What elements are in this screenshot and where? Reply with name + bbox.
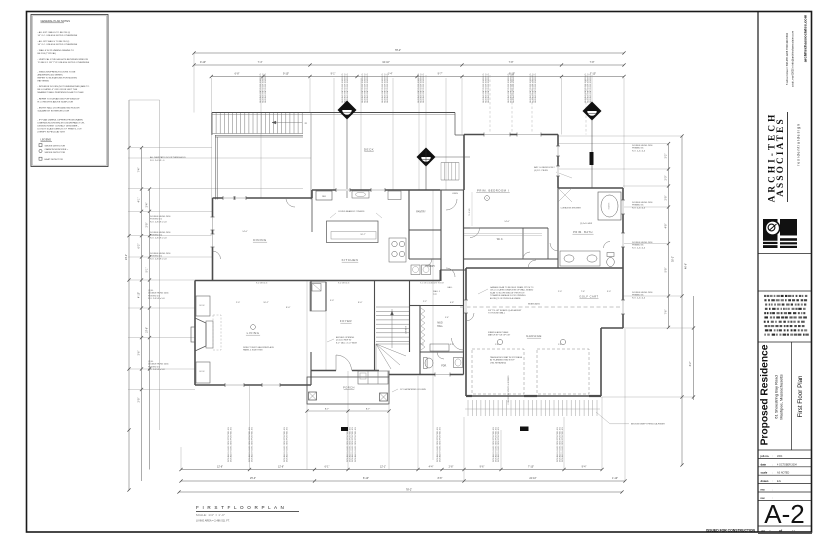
svg-text:- ALL EXT. WALLS TO BE 2X6 @: - ALL EXT. WALLS TO BE 2X6 @ <box>38 31 71 34</box>
svg-text:5/8" T1L WT BOARD @ ADJACENT: 5/8" T1L WT BOARD @ ADJACENT <box>488 309 522 312</box>
svg-text:34'-10": 34'-10" <box>382 61 390 64</box>
svg-text:SLIDING PATIO DR 6068 R.O.: SLIDING PATIO DR 6068 R.O. <box>532 73 535 103</box>
svg-text:W.I.C.: W.I.C. <box>497 238 504 241</box>
svg-text:SLIDING PATIO DR 6068 R.O.: SLIDING PATIO DR 6068 R.O. <box>507 73 510 103</box>
svg-text:GARAGE: GARAGE <box>526 334 542 338</box>
svg-text:GARAGE SLAB TO BE SELF DRAIN.: GARAGE SLAB TO BE SELF DRAIN. PITCH TO <box>490 286 534 289</box>
svg-text:REFER TO ELEVATIONS FOR MUNTIN: REFER TO ELEVATIONS FOR MUNTIN <box>38 76 78 79</box>
svg-text:SLIDING PATIO DR 6068 R.O.: SLIDING PATIO DR 6068 R.O. <box>589 73 592 103</box>
svg-text:DOUBLE HUNG 2456: DOUBLE HUNG 2456 <box>150 253 171 255</box>
svg-text:BE 2X6 (TYPICAL): BE 2X6 (TYPICAL) <box>38 52 57 55</box>
svg-text:HALL: HALL <box>447 286 453 289</box>
svg-text:(TBL RETAINED): (TBL RETAINED) <box>490 361 506 364</box>
svg-text:9'-7": 9'-7" <box>438 72 443 75</box>
svg-text:PRIMED 8/1: PRIMED 8/1 <box>632 245 644 247</box>
svg-text:2'-8": 2'-8" <box>147 223 149 228</box>
svg-text:LIVING AREA = 2,486 SQ. FT.: LIVING AREA = 2,486 SQ. FT. <box>196 520 230 523</box>
svg-text:DECK: DECK <box>364 148 374 152</box>
svg-text:4'-2": 4'-2" <box>690 362 692 367</box>
svg-text:SLIDING PATIO DR 6068 R.O.: SLIDING PATIO DR 6068 R.O. <box>366 73 369 103</box>
svg-text:First Floor Plan: First Floor Plan <box>797 375 804 418</box>
svg-text:SLIDING PATIO DR 6068 R.O.: SLIDING PATIO DR 6068 R.O. <box>485 73 488 103</box>
svg-text:SLIDING PATIO DR 6068 R.O.: SLIDING PATIO DR 6068 R.O. <box>381 73 384 103</box>
svg-text:SLIDING PATIO DR 6068 R.O.: SLIDING PATIO DR 6068 R.O. <box>584 73 587 103</box>
svg-text:(2) 2x10 HDR W/: (2) 2x10 HDR W/ <box>336 340 352 342</box>
svg-text:14'-0": 14'-0" <box>504 221 510 223</box>
svg-text:CURBLESS SHOWER: CURBLESS SHOWER <box>561 208 582 210</box>
svg-text:F I R S T F L O O R P L A: F I R S T F L O O R P L A N <box>196 505 285 510</box>
svg-text:DIRECT VENT GAS FIREPLACE: DIRECT VENT GAS FIREPLACE <box>243 346 274 349</box>
svg-text:DOUBLE HUNG 2656 POSTED 4/1: DOUBLE HUNG 2656 POSTED 4/1 <box>562 426 564 462</box>
svg-text:AT PLANNING PAD STOP: AT PLANNING PAD STOP <box>490 359 515 362</box>
svg-text:7'-6": 7'-6" <box>665 310 667 315</box>
svg-text:scale: scale <box>761 471 768 475</box>
svg-text:sht: sht <box>761 529 765 533</box>
svg-text:7'-6": 7'-6" <box>581 291 585 293</box>
svg-text:1'-10": 1'-10" <box>612 478 618 480</box>
svg-text:AS NOTED: AS NOTED <box>777 472 789 475</box>
svg-text:8'-10": 8'-10" <box>363 478 369 480</box>
svg-text:16" O.C. UNLESS NOTED OTHERWIS: 16" O.C. UNLESS NOTED OTHERWISE <box>38 44 78 46</box>
svg-text:- VERTICAL STUD HEIGHTS BETWEE: - VERTICAL STUD HEIGHTS BETWEEN WINDOW <box>38 58 89 61</box>
svg-text:9'-1 1/8 CLG ADJUST ROOM: 9'-1 1/8 CLG ADJUST ROOM <box>420 282 444 285</box>
svg-text:R.O. 2-8 1/8 x 5-8: R.O. 2-8 1/8 x 5-8 <box>150 237 167 239</box>
svg-text:24'-2": 24'-2" <box>126 254 128 260</box>
svg-text:DOUBLE HUNG 2456: DOUBLE HUNG 2456 <box>150 232 171 234</box>
svg-text:PRIM. BEDROOM I: PRIM. BEDROOM I <box>477 189 509 193</box>
svg-text:12'-1": 12'-1" <box>380 467 386 469</box>
svg-text:(6) P.C. PIERS: (6) P.C. PIERS <box>534 170 548 172</box>
svg-text:PORCH: PORCH <box>343 386 355 390</box>
svg-text:architechassociates.com: architechassociates.com <box>803 14 808 62</box>
svg-text:HALL: HALL <box>437 325 443 328</box>
svg-text:5'-1 3/4: 5'-1 3/4 <box>469 208 471 216</box>
svg-text:7'-4": 7'-4" <box>258 61 263 64</box>
svg-text:12'-6": 12'-6" <box>278 467 284 469</box>
svg-text:POSTED 4/1: POSTED 4/1 <box>148 295 161 297</box>
svg-text:TYP.: TYP. <box>433 294 438 296</box>
svg-text:2'-0": 2'-0" <box>665 176 667 181</box>
svg-text:CELL LOCATED DRAIN BTM OF WALL: CELL LOCATED DRAIN BTM OF WALL BOARD <box>490 289 534 292</box>
svg-text:2'-8": 2'-8" <box>665 196 667 201</box>
svg-text:POSTED 4/1: POSTED 4/1 <box>150 235 163 237</box>
svg-text:NEAREST WALL PERPENDICULAR TO: NEAREST WALL PERPENDICULAR TO PLAN <box>38 91 84 94</box>
svg-text:2'-2": 2'-2" <box>423 301 427 303</box>
svg-text:DOUBLE HUNG 2656 POSTED 4/1: DOUBLE HUNG 2656 POSTED 4/1 <box>498 426 500 462</box>
svg-text:14'-0": 14'-0" <box>242 231 248 233</box>
svg-text:R.O. 2-8 1/8 x 5-8: R.O. 2-8 1/8 x 5-8 <box>148 298 165 300</box>
svg-text:ALL NEW PATIO DOOR THRESHOLD: ALL NEW PATIO DOOR THRESHOLD <box>150 156 186 159</box>
svg-text:PANEL 4 SIDE TRIM: PANEL 4 SIDE TRIM <box>243 349 263 352</box>
svg-text:SLIDING PATIO DR 6068 R.O.: SLIDING PATIO DR 6068 R.O. <box>534 73 537 103</box>
svg-text:4'-10": 4'-10" <box>139 292 141 298</box>
svg-text:78'-2": 78'-2" <box>406 488 412 491</box>
svg-text:10" DIA TAPERED COLUMN: 10" DIA TAPERED COLUMN <box>400 388 426 391</box>
svg-text:8'-7": 8'-7" <box>366 409 371 411</box>
svg-text:DOUBLE HUNG 2056: DOUBLE HUNG 2056 <box>632 242 653 244</box>
svg-text:COVED BEAM BY OTHERS: COVED BEAM BY OTHERS <box>338 210 365 213</box>
svg-text:SLIDING PATIO DR 6068 R.O.: SLIDING PATIO DR 6068 R.O. <box>587 73 590 103</box>
svg-text:SLIDING PATIO DR 6068 R.O.: SLIDING PATIO DR 6068 R.O. <box>346 73 349 103</box>
svg-text:DOUBLE HUNG 2056: DOUBLE HUNG 2056 <box>632 202 653 204</box>
svg-text:FOYER: FOYER <box>340 319 352 323</box>
svg-text:3'-0": 3'-0" <box>607 291 611 293</box>
svg-text:(2) 4L: (2) 4L <box>148 361 154 363</box>
svg-text:DOUBLE HUNG 2056: DOUBLE HUNG 2056 <box>632 292 653 294</box>
svg-text:9'-4": 9'-4" <box>582 467 587 469</box>
svg-text:6'-2": 6'-2" <box>139 244 141 249</box>
svg-text:SLIDING PATIO DR 6068 R.O.: SLIDING PATIO DR 6068 R.O. <box>482 73 485 103</box>
svg-text:SLIDING PATIO DR 6068 R.O.: SLIDING PATIO DR 6068 R.O. <box>361 73 364 103</box>
svg-text:6'-1": 6'-1" <box>325 467 330 469</box>
svg-text:FIBERGLASS PLANK: FIBERGLASS PLANK <box>488 331 509 334</box>
svg-text:R.O. HEIGHTS ABOVE SUBFLOOR: R.O. HEIGHTS ABOVE SUBFLOOR <box>38 101 74 104</box>
svg-text:- INTERIOR DOORS (NOT DIMENSIO: - INTERIOR DOORS (NOT DIMENSIONED) ARE T… <box>38 85 90 88</box>
svg-text:25'-0": 25'-0" <box>250 478 256 480</box>
svg-text:4 OCTOBER 2004: 4 OCTOBER 2004 <box>777 463 797 466</box>
svg-text:job no.: job no. <box>760 454 770 458</box>
svg-text:SLIDING PATIO DR 6068 R.O.: SLIDING PATIO DR 6068 R.O. <box>510 73 513 103</box>
svg-text:4'-4": 4'-4" <box>429 467 434 469</box>
svg-text:BOOK: BOOK <box>199 305 205 307</box>
svg-text:1'-4": 1'-4" <box>495 344 499 346</box>
svg-text:9'-0 1/8 CLG: 9'-0 1/8 CLG <box>338 283 350 285</box>
svg-text:6'-8": 6'-8" <box>450 302 454 304</box>
svg-text:R.O. 2-8 1/8 x 5-8: R.O. 2-8 1/8 x 5-8 <box>150 221 167 223</box>
svg-text:BOOK: BOOK <box>199 371 205 373</box>
svg-text:ANDERSEN 400 SERIES.: ANDERSEN 400 SERIES. <box>38 73 64 76</box>
svg-text:2004: 2004 <box>777 455 783 458</box>
svg-text:CONCRETE STEPS 4 RISERS: CONCRETE STEPS 4 RISERS <box>508 375 510 405</box>
svg-text:LINEN: LINEN <box>452 193 458 195</box>
svg-text:3'-4": 3'-4" <box>147 203 149 208</box>
svg-text:8'-0" TALL x 5'-0" WIDE: 8'-0" TALL x 5'-0" WIDE <box>336 341 358 344</box>
svg-text:SLIDING PATIO DR 6068 R.O.: SLIDING PATIO DR 6068 R.O. <box>422 73 425 103</box>
svg-text:r e s i d e n t i a l d e s: r e s i d e n t i a l d e s i g n <box>797 124 801 166</box>
svg-text:7'-4": 7'-4" <box>139 168 141 173</box>
svg-text:SLIDING PATIO DR 6068 R.O.: SLIDING PATIO DR 6068 R.O. <box>341 73 344 103</box>
svg-text:ARCHED OPENING: ARCHED OPENING <box>336 336 355 339</box>
svg-text:SMOKE DETECTOR: SMOKE DETECTOR <box>45 145 66 147</box>
svg-text:6'-8": 6'-8" <box>235 72 240 75</box>
svg-text:Proposed Residence: Proposed Residence <box>760 344 771 445</box>
svg-text:SLIDING PATIO DR 6068 R.O.: SLIDING PATIO DR 6068 R.O. <box>386 73 389 103</box>
svg-text:BEAM (ABV): BEAM (ABV) <box>528 303 540 306</box>
svg-text:PRIMED 8/1: PRIMED 8/1 <box>632 295 644 297</box>
svg-text:9'-0 1/8 CLG: 9'-0 1/8 CLG <box>256 283 268 285</box>
svg-text:CARBON MONOXIDE +: CARBON MONOXIDE + <box>45 148 69 151</box>
svg-text:24'-10": 24'-10" <box>529 478 536 480</box>
svg-text:SLIDING PATIO DR 6068 R.O.: SLIDING PATIO DR 6068 R.O. <box>264 73 267 103</box>
svg-text:WALL 5: WALL 5 <box>433 290 441 293</box>
svg-text:SLIDING PATIO DR 6068 R.O.: SLIDING PATIO DR 6068 R.O. <box>487 73 490 103</box>
svg-text:- WALLS W/ PLUMBING DRAINS TO: - WALLS W/ PLUMBING DRAINS TO <box>38 49 75 52</box>
svg-text:GOLF CART: GOLF CART <box>579 295 598 299</box>
svg-text:12'-6": 12'-6" <box>217 467 223 469</box>
svg-text:TANDEM BOX MAT W/ STORAGE: TANDEM BOX MAT W/ STORAGE <box>490 356 523 359</box>
svg-text:R.O. 2-4 x 4-6: R.O. 2-4 x 4-6 <box>632 150 646 152</box>
svg-text:SQUARE BY EXTERIOR DOOR: SQUARE BY EXTERIOR DOOR <box>38 110 70 113</box>
svg-text:9: 9 <box>487 198 488 200</box>
svg-text:5'-4": 5'-4" <box>445 317 449 319</box>
svg-text:POSTED 4/1: POSTED 4/1 <box>148 366 161 368</box>
svg-text:2'-0": 2'-0" <box>236 302 240 304</box>
svg-text:PANTRY: PANTRY <box>416 211 426 214</box>
svg-text:PRIM. BATH: PRIM. BATH <box>573 230 593 234</box>
svg-text:LIVING: LIVING <box>247 331 260 335</box>
svg-text:SLIDING PATIO DR 6068 R.O.: SLIDING PATIO DR 6068 R.O. <box>344 73 347 103</box>
svg-text:BROOM SWEPT PERGOLA FINISH: BROOM SWEPT PERGOLA FINISH <box>631 423 665 426</box>
svg-text:DOUBLE HUNG 2456: DOUBLE HUNG 2456 <box>148 293 169 295</box>
svg-text:drawn: drawn <box>761 479 769 483</box>
svg-text:TO HOUSE WALL: TO HOUSE WALL <box>488 312 506 315</box>
svg-text:9'-6": 9'-6" <box>480 467 485 469</box>
svg-text:DINING: DINING <box>253 238 267 242</box>
svg-text:BAY 1 & BEDROOM 2: BAY 1 & BEDROOM 2 <box>534 166 556 169</box>
svg-text:9'-1": 9'-1" <box>331 72 336 75</box>
svg-text:DOUBLE HUNG 2656 POSTED 4/1: DOUBLE HUNG 2656 POSTED 4/1 <box>355 426 357 462</box>
svg-text:HEAT DETECTOR: HEAT DETECTOR <box>45 158 64 161</box>
svg-text:SLIDING PATIO DR 6068 R.O.: SLIDING PATIO DR 6068 R.O. <box>262 73 265 103</box>
svg-text:R.O. 2-4 x 4-6: R.O. 2-4 x 4-6 <box>632 247 646 249</box>
svg-text:- ENTRY HALL DOORS AND MID ROU: - ENTRY HALL DOORS AND MID ROUGH <box>38 107 80 110</box>
svg-text:cotuit, ma 02635 e info@arch: cotuit, ma 02635 e info@architechassocia… <box>791 31 795 87</box>
svg-text:AS REQ'D OF PERGOLA GRADE: AS REQ'D OF PERGOLA GRADE <box>490 297 521 300</box>
svg-text:SLIDING PATIO DR 6068 R.O.: SLIDING PATIO DR 6068 R.O. <box>529 73 532 103</box>
svg-text:3'-2": 3'-2" <box>665 154 667 159</box>
svg-text:POSTED 4/1: POSTED 4/1 <box>150 256 163 258</box>
svg-text:16" O.C. UNLESS NOTED OTHERWIS: 16" O.C. UNLESS NOTED OTHERWISE <box>38 35 78 37</box>
svg-text:2'-0": 2'-0" <box>558 291 562 293</box>
svg-text:PDR.: PDR. <box>441 366 447 368</box>
svg-text:SLIDING PATIO DR 6068 R.O.: SLIDING PATIO DR 6068 R.O. <box>364 73 367 103</box>
svg-text:CUBBIES: CUBBIES <box>406 325 408 334</box>
svg-text:8'-0": 8'-0" <box>286 307 291 309</box>
svg-text:1'-4": 1'-4" <box>558 344 562 346</box>
svg-text:4'-1": 4'-1" <box>139 198 141 203</box>
svg-text:DOUBLE HUNG 2056: DOUBLE HUNG 2056 <box>632 145 653 147</box>
svg-text:R.O. 2-0 1/8 - 0: R.O. 2-0 1/8 - 0 <box>150 160 165 162</box>
svg-text:SLIDING PATIO DR 6068 R.O.: SLIDING PATIO DR 6068 R.O. <box>512 73 515 103</box>
svg-text:- ALL INT. WALLS TO BE 2X4 @: - ALL INT. WALLS TO BE 2X4 @ <box>38 40 71 43</box>
svg-text:KITCHEN: KITCHEN <box>342 258 359 262</box>
svg-text:DOUBLE HUNG 2456: DOUBLE HUNG 2456 <box>150 216 171 218</box>
svg-text:39'-2": 39'-2" <box>673 256 675 262</box>
svg-text:TO BE 8'-1 1/8" TYP. UNLESS NO: TO BE 8'-1 1/8" TYP. UNLESS NOTED OTHERW… <box>38 62 90 64</box>
svg-text:8'-8": 8'-8" <box>438 478 443 480</box>
svg-text:(2) 4L: (2) 4L <box>148 290 154 292</box>
svg-text:Mashpee, Massachusetts: Mashpee, Massachusetts <box>779 374 784 419</box>
svg-text:7'-0": 7'-0" <box>420 344 424 346</box>
svg-text:R.O. 2-4 x 4-6: R.O. 2-4 x 4-6 <box>632 207 646 209</box>
svg-text:PRIMED 8/1: PRIMED 8/1 <box>632 148 644 150</box>
svg-text:POSTED 4/1: POSTED 4/1 <box>150 219 163 221</box>
svg-text:PRIMED 8/1: PRIMED 8/1 <box>632 205 644 207</box>
svg-text:2'-8": 2'-8" <box>449 467 454 469</box>
svg-text:rev.: rev. <box>761 488 766 492</box>
svg-text:EJL: EJL <box>777 480 782 483</box>
svg-text:2'-8": 2'-8" <box>139 398 141 403</box>
svg-text:SLAB TO SLOPE MIN 1/8" PER FOO: SLAB TO SLOPE MIN 1/8" PER FOOT <box>490 291 525 294</box>
svg-text:7'-8": 7'-8" <box>590 61 595 64</box>
svg-text:5 school street t 508.455.12: 5 school street t 508.455.1226 f 508.420… <box>785 32 789 85</box>
svg-text:DOUBLE HUNG 2656 POSTED 4/1: DOUBLE HUNG 2656 POSTED 4/1 <box>287 426 289 462</box>
svg-text:BE LOCATED 4" OFF OF/OR LEFT T: BE LOCATED 4" OFF OF/OR LEFT THE <box>38 88 78 91</box>
svg-text:MATCH STYLE OF 1ST: MATCH STYLE OF 1ST <box>488 334 511 337</box>
svg-text:R.O. 2-8 1/8 x 5-8: R.O. 2-8 1/8 x 5-8 <box>148 369 165 371</box>
svg-text:date: date <box>761 462 767 466</box>
svg-text:A-2: A-2 <box>764 499 804 529</box>
svg-text:8'-7": 8'-7" <box>325 409 330 411</box>
svg-text:- IF PLAN DIMENS. DIFFERS FROM: - IF PLAN DIMENS. DIFFERS FROM DRAWN <box>38 118 84 121</box>
svg-text:DOUBLE HUNG 2656 POSTED 4/1: DOUBLE HUNG 2656 POSTED 4/1 <box>252 426 254 462</box>
svg-text:10'-6": 10'-6" <box>147 327 149 333</box>
svg-text:MUD: MUD <box>437 323 443 325</box>
svg-text:SLIDING PATIO DR 6068 R.O.: SLIDING PATIO DR 6068 R.O. <box>259 73 262 103</box>
svg-text:4'-8": 4'-8" <box>665 224 667 229</box>
svg-text:SMOKE DETECTOR: SMOKE DETECTOR <box>45 152 66 154</box>
svg-text:16'-2": 16'-2" <box>263 302 269 304</box>
svg-text:16'-7": 16'-7" <box>360 234 366 236</box>
svg-text:R.O. 2-8 1/8 x 5-8: R.O. 2-8 1/8 x 5-8 <box>150 258 167 260</box>
svg-text:46'-6": 46'-6" <box>686 263 688 269</box>
svg-text:9'-10": 9'-10" <box>283 72 289 75</box>
svg-text:TOWARDS GARAGE DOOR OPENING: TOWARDS GARAGE DOOR OPENING <box>490 294 526 297</box>
svg-text:DO NOT SCALE DIRECTLY F. PRINT: DO NOT SCALE DIRECTLY F. PRINTS, V.I.F. <box>38 127 83 130</box>
svg-text:ASSOCIATES: ASSOCIATES <box>775 117 785 197</box>
svg-text:SLIDING PATIO DR 6068 R.O.: SLIDING PATIO DR 6068 R.O. <box>384 73 387 103</box>
svg-text:DIMENSION (SHOWN) BY DISCREPAN: DIMENSION (SHOWN) BY DISCREPANCY OR, <box>38 121 85 124</box>
svg-text:9'-10": 9'-10" <box>200 61 206 64</box>
svg-text:SCALE: 1/4" = 1'-0": SCALE: 1/4" = 1'-0" <box>196 514 225 517</box>
svg-text:5'-1": 5'-1" <box>147 268 149 273</box>
svg-text:8'-0": 8'-0" <box>358 302 363 304</box>
svg-text:- WINDOWS/FRENCH DOORS TO BE: - WINDOWS/FRENCH DOORS TO BE <box>38 71 76 73</box>
svg-text:LEGEND: LEGEND <box>41 138 52 142</box>
svg-text:7'-8": 7'-8" <box>509 61 514 64</box>
svg-text:9'-0": 9'-0" <box>330 300 334 302</box>
svg-text:DOUBLE HUNG 2656 POSTED 4/1: DOUBLE HUNG 2656 POSTED 4/1 <box>440 426 442 462</box>
svg-text:7'-10": 7'-10" <box>528 467 534 469</box>
svg-text:DOUBLE HUNG 2656 POSTED 4/1: DOUBLE HUNG 2656 POSTED 4/1 <box>231 426 233 462</box>
svg-text:DOUBLE HUNG 2456: DOUBLE HUNG 2456 <box>148 364 169 366</box>
svg-text:78'-2": 78'-2" <box>395 49 401 52</box>
svg-text:ISSUED FOR CONSTRUCTION: ISSUED FOR CONSTRUCTION <box>706 529 756 533</box>
svg-text:3'-6": 3'-6" <box>139 351 141 356</box>
svg-text:(3) 2x10 HDR: (3) 2x10 HDR <box>580 223 593 225</box>
svg-text:5'-8": 5'-8" <box>665 268 667 273</box>
svg-text:- REFER TO ELEVATIONS FOR WIND: - REFER TO ELEVATIONS FOR WINDOW <box>38 98 81 101</box>
svg-text:GENERAL PLAN NOTES: GENERAL PLAN NOTES <box>41 19 71 23</box>
svg-text:PATTERNS: PATTERNS <box>38 79 50 82</box>
svg-text:SLIDING PATIO DR 6068 R.O.: SLIDING PATIO DR 6068 R.O. <box>420 73 423 103</box>
svg-text:DESIGN INTENT CONTACT DESIGNER: DESIGN INTENT CONTACT DESIGNER - <box>38 124 79 127</box>
svg-text:R.O. 2-4 x 4-6: R.O. 2-4 x 4-6 <box>632 297 646 299</box>
svg-text:(VERIFY IN FIELD) AT SITE: (VERIFY IN FIELD) AT SITE <box>38 130 66 133</box>
svg-text:SLIDING PATIO DR 6068 R.O.: SLIDING PATIO DR 6068 R.O. <box>417 73 420 103</box>
